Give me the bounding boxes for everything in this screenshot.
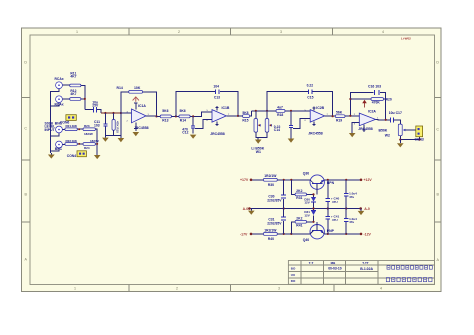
svg-text:5K8: 5K8 bbox=[242, 111, 248, 115]
svg-text:D: D bbox=[24, 61, 27, 65]
svg-text:5K6: 5K6 bbox=[162, 109, 168, 113]
svg-text:R21: R21 bbox=[66, 124, 72, 128]
svg-text:IC2B: IC2B bbox=[316, 106, 324, 110]
svg-text:A-0: A-0 bbox=[364, 207, 370, 211]
svg-text:C12: C12 bbox=[182, 131, 188, 135]
svg-text:-17V: -17V bbox=[240, 232, 248, 236]
svg-text:3: 3 bbox=[278, 286, 280, 290]
svg-text:2: 2 bbox=[178, 30, 180, 34]
svg-text:4K7: 4K7 bbox=[70, 75, 76, 79]
svg-text:C15: C15 bbox=[307, 95, 313, 99]
svg-text:C14: C14 bbox=[274, 128, 280, 132]
svg-text:B-1.02A: B-1.02A bbox=[360, 267, 373, 271]
svg-text:Li-W02: Li-W02 bbox=[401, 37, 411, 41]
svg-text:+17V: +17V bbox=[240, 178, 249, 182]
svg-text:0.22: 0.22 bbox=[307, 84, 314, 88]
svg-text:R20: R20 bbox=[386, 97, 392, 101]
svg-text:49K: 49K bbox=[72, 124, 78, 128]
svg-text:1R2/1W: 1R2/1W bbox=[264, 228, 277, 232]
svg-text:-12V: -12V bbox=[364, 232, 372, 236]
svg-text:47U: 47U bbox=[332, 218, 338, 222]
svg-text:10K: 10K bbox=[134, 86, 141, 90]
svg-text:47K R10: 47K R10 bbox=[116, 121, 120, 133]
svg-text:2K2: 2K2 bbox=[296, 216, 302, 220]
svg-text:C: C bbox=[436, 128, 439, 132]
svg-text:00-03-10: 00-03-10 bbox=[328, 267, 342, 271]
svg-text:56K: 56K bbox=[336, 110, 343, 114]
svg-text:R14: R14 bbox=[180, 119, 186, 123]
svg-text:R23: R23 bbox=[84, 124, 90, 128]
svg-text:R18: R18 bbox=[277, 113, 283, 117]
svg-text:INPUT: INPUT bbox=[45, 128, 55, 132]
svg-text:CON6: CON6 bbox=[60, 120, 69, 124]
svg-text:182/W: 182/W bbox=[90, 139, 99, 143]
svg-text:R24: R24 bbox=[84, 146, 90, 150]
svg-text:4u7: 4u7 bbox=[277, 106, 283, 110]
svg-text:CON3: CON3 bbox=[415, 138, 424, 142]
svg-text:C16 103: C16 103 bbox=[368, 84, 381, 88]
svg-text:JRC4558: JRC4558 bbox=[308, 131, 323, 135]
svg-text:4: 4 bbox=[380, 286, 382, 290]
svg-text:A-0: A-0 bbox=[243, 207, 249, 211]
svg-text:IC1B: IC1B bbox=[222, 106, 230, 110]
svg-text:CON4: CON4 bbox=[67, 154, 76, 158]
svg-text:UU: UU bbox=[291, 273, 295, 277]
svg-text:R15: R15 bbox=[242, 119, 248, 123]
svg-text:R14: R14 bbox=[117, 86, 123, 90]
svg-text:R31: R31 bbox=[296, 196, 302, 200]
svg-text:12V: 12V bbox=[304, 201, 309, 205]
svg-text:10u C17: 10u C17 bbox=[389, 111, 402, 115]
svg-text:470K: 470K bbox=[372, 101, 381, 105]
svg-text:BNC: BNC bbox=[55, 147, 63, 151]
svg-text:47U: 47U bbox=[332, 200, 338, 204]
svg-text:W1: W1 bbox=[256, 150, 261, 154]
svg-text:JRC4558: JRC4558 bbox=[358, 127, 373, 131]
svg-text:T-T: T-T bbox=[309, 261, 314, 265]
svg-text:1: 1 bbox=[74, 286, 76, 290]
svg-text:12V: 12V bbox=[304, 213, 309, 217]
svg-text:BO: BO bbox=[291, 266, 296, 270]
svg-text:C13: C13 bbox=[214, 96, 220, 100]
svg-text:C: C bbox=[24, 127, 27, 131]
svg-text:47u: 47u bbox=[349, 220, 354, 224]
svg-text:104: 104 bbox=[213, 85, 219, 89]
svg-text:R19: R19 bbox=[336, 119, 342, 123]
svg-text:+12V: +12V bbox=[364, 178, 373, 182]
svg-text:Q30: Q30 bbox=[303, 172, 310, 176]
svg-text:DO: DO bbox=[291, 279, 296, 283]
svg-text:D: D bbox=[436, 61, 439, 65]
svg-text:T-TT: T-TT bbox=[362, 261, 368, 265]
svg-text:2K2: 2K2 bbox=[296, 189, 302, 193]
svg-text:103: 103 bbox=[94, 124, 100, 128]
svg-text:IC2A: IC2A bbox=[368, 110, 376, 114]
svg-text:1R2/1W: 1R2/1W bbox=[264, 174, 277, 178]
svg-text:182/W: 182/W bbox=[84, 132, 93, 136]
svg-text:IC1A: IC1A bbox=[138, 104, 146, 108]
svg-text:JRC4558: JRC4558 bbox=[210, 132, 225, 136]
svg-text:MB: MB bbox=[331, 261, 336, 265]
svg-text:2202/35V: 2202/35V bbox=[267, 199, 282, 203]
svg-text:R13: R13 bbox=[162, 119, 168, 123]
svg-text:R40: R40 bbox=[268, 237, 274, 241]
svg-text:R41: R41 bbox=[296, 223, 302, 227]
svg-text:2202/35V: 2202/35V bbox=[267, 221, 282, 225]
svg-text:RCAx: RCAx bbox=[55, 103, 64, 107]
svg-text:4K7: 4K7 bbox=[70, 92, 76, 96]
svg-text:47u: 47u bbox=[349, 195, 354, 199]
svg-text:R22: R22 bbox=[66, 139, 72, 143]
svg-text:3: 3 bbox=[280, 30, 282, 34]
svg-text:25V: 25V bbox=[92, 103, 99, 107]
svg-text:R30: R30 bbox=[268, 183, 274, 187]
svg-text:1: 1 bbox=[76, 30, 78, 34]
svg-text:Q40: Q40 bbox=[303, 238, 310, 242]
svg-text:RCAx: RCAx bbox=[55, 77, 64, 81]
svg-text:W2: W2 bbox=[385, 133, 390, 137]
svg-text:49K: 49K bbox=[72, 139, 78, 143]
svg-text:B50K: B50K bbox=[379, 129, 388, 133]
svg-text:4: 4 bbox=[382, 30, 384, 34]
svg-text:5K6: 5K6 bbox=[180, 109, 186, 113]
svg-text:2: 2 bbox=[176, 286, 178, 290]
